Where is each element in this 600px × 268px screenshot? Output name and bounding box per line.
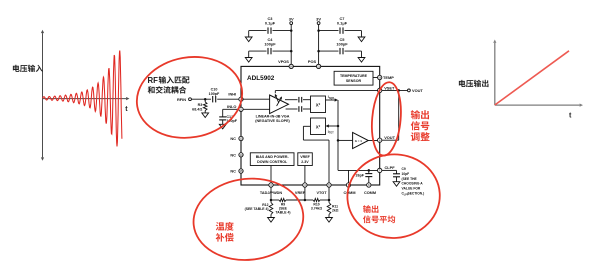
svg-text:SQR: SQR (329, 98, 334, 100)
svg-text:NC: NC (230, 136, 236, 141)
node C5 tap (317, 50, 320, 53)
wire VTGT down (328, 187, 331, 201)
capacitor C10 100pF (209, 88, 239, 103)
wire feedback VOUT to VSET (382, 90, 399, 140)
VGA gain control arrows (275, 91, 282, 106)
svg-text:NC: NC (230, 169, 236, 174)
svg-text:RFIN: RFIN (177, 97, 186, 102)
pin NC1 (230, 136, 243, 141)
pin INHI (228, 91, 243, 101)
svg-text:10pF: 10pF (402, 172, 410, 176)
pin POS (308, 59, 321, 68)
annotation text RF输入匹配和交流耦合 (148, 76, 190, 94)
terminal VOUT (408, 88, 424, 93)
capacitor C12 100pF (219, 109, 238, 124)
pin NC3 (230, 169, 243, 174)
svg-text:68.4Ω: 68.4Ω (192, 107, 202, 111)
annotation text 输出信号调整 (411, 110, 430, 141)
capacitor 26pF internal (356, 169, 373, 183)
op-amp U1 VGA triangle (270, 95, 289, 114)
pin CLPF (378, 165, 396, 173)
svg-text:TEMPERATURE: TEMPERATURE (340, 74, 368, 78)
svg-text:RF: RF (148, 76, 159, 85)
svg-text:COMM: COMM (364, 191, 376, 195)
svg-text:G = 1: G = 1 (355, 139, 363, 143)
label ADL5902 (247, 75, 275, 82)
wire INLO to VGA (243, 108, 269, 110)
output voltage graph vertical axis (493, 40, 496, 106)
node R3 tap (204, 98, 207, 101)
resistor R10 3.74k (305, 198, 329, 210)
label LINEAR-IN-dB VGA (255, 115, 290, 123)
output ramp line (495, 51, 569, 105)
current ITGT arrow (326, 124, 340, 134)
svg-text:POS: POS (308, 59, 317, 64)
current ISQR arrow (326, 95, 339, 102)
ground (C4) (245, 51, 252, 62)
summing node line (337, 100, 339, 170)
svg-text:100pF: 100pF (209, 92, 220, 96)
svg-text:TEMP: TEMP (383, 75, 394, 80)
capacitor C3 0.1uF (249, 16, 292, 34)
svg-text:INHI: INHI (228, 91, 236, 96)
wire VREF down (304, 187, 307, 201)
annotation text 输出信号平均 (363, 205, 395, 223)
node C3 tap (290, 29, 293, 32)
label t (input axis) (125, 106, 128, 113)
svg-text:VSET: VSET (384, 86, 395, 91)
wire internal CLPF (338, 169, 377, 171)
svg-text:VTGT: VTGT (316, 191, 327, 195)
annotation ellipse output adjust (369, 81, 404, 157)
node buffer tap (337, 139, 340, 142)
svg-text:SECTION.): SECTION.) (408, 192, 425, 196)
pin INLO (227, 104, 243, 111)
pin TADJ/PWDN (260, 183, 283, 195)
annotation ellipse RF input (130, 49, 248, 146)
wire to buffer (338, 139, 353, 141)
VGA output coupling caps (285, 97, 311, 112)
ground (R3) (202, 111, 209, 118)
node C4 tap (290, 50, 293, 53)
svg-text:CLPF: CLPF (385, 165, 396, 170)
svg-text:INLO: INLO (227, 104, 236, 109)
svg-text:VREF: VREF (295, 191, 306, 195)
resistor R9 (271, 198, 305, 214)
capacitor C4 100pF (249, 37, 292, 54)
svg-text:t: t (125, 106, 128, 113)
pin COMM (clpf) (364, 183, 376, 195)
wire VTGT to squarer (303, 126, 329, 182)
ground (C12) (219, 124, 226, 129)
annotation ellipse output averaging (345, 151, 443, 241)
ground (C5) (358, 51, 365, 62)
input RF burst waveform (43, 51, 122, 147)
wire INLO (223, 108, 239, 110)
svg-text:VOUT: VOUT (412, 88, 423, 93)
svg-text:VALUE FOR: VALUE FOR (402, 187, 421, 191)
svg-text:(SEE THE: (SEE THE (402, 177, 418, 181)
pin VOUT (378, 135, 396, 142)
input voltage graph vertical axis (41, 30, 44, 161)
svg-text:BIAS AND POWER-: BIAS AND POWER- (256, 155, 290, 159)
wire RFIN to C10 (191, 98, 211, 100)
ground (R11) (326, 218, 333, 223)
resistor R11 2k (327, 200, 339, 218)
svg-text:3V: 3V (316, 17, 321, 22)
svg-text:3V: 3V (289, 17, 294, 22)
svg-text:(SEE TABLE 4): (SEE TABLE 4) (245, 207, 269, 211)
svg-text:26pF: 26pF (356, 174, 365, 178)
svg-text:0.1μF: 0.1μF (265, 20, 276, 25)
wire INHI to VGA (243, 98, 269, 100)
pin VSET (378, 86, 395, 93)
squarer X2 (target) (311, 118, 326, 135)
wire VSET to VOUT terminal (382, 89, 407, 91)
op-chip ADL5902 body (241, 66, 380, 185)
wire 3V to VPOS (290, 25, 292, 64)
capacitor C9 (393, 174, 400, 182)
wire sensor to TEMP pin (373, 77, 377, 79)
ground (C3) (245, 31, 252, 42)
svg-text:NC: NC (230, 152, 236, 157)
pin VREF (295, 183, 307, 195)
svg-text:3.74kΩ: 3.74kΩ (311, 207, 322, 211)
svg-text:100pF: 100pF (264, 42, 276, 47)
resistor R12 (245, 200, 273, 218)
ground (C7) (358, 31, 365, 42)
node C7 tap (317, 29, 320, 32)
block VREF 2.3V (298, 153, 313, 166)
output voltage graph horizontal axis (495, 104, 583, 107)
svg-text:ADL5902: ADL5902 (247, 75, 275, 82)
svg-text:2.3V: 2.3V (301, 160, 309, 164)
node feedback junction (397, 89, 400, 92)
svg-text:VREF: VREF (300, 155, 310, 159)
squarer X2 (signal) (311, 96, 326, 113)
wire TADJ down (270, 187, 273, 201)
capacitor C5 100pF (319, 37, 362, 54)
label 电压输入 (13, 65, 43, 72)
pin TEMP (378, 75, 395, 80)
svg-text:SENSOR: SENSOR (346, 79, 362, 83)
svg-text:CHOOSING A: CHOOSING A (402, 182, 424, 186)
annotation text 温度补偿 (216, 222, 234, 242)
resistor R3 68.4ohm (192, 99, 207, 111)
svg-text:TABLE 4): TABLE 4) (275, 211, 290, 215)
pin VTGT (316, 183, 331, 195)
pin COMM (buffer) (343, 183, 355, 195)
svg-text:2kΩ: 2kΩ (332, 209, 339, 213)
terminal RFIN (177, 97, 191, 102)
op-amp buffer G=1 (353, 132, 369, 148)
block BIAS AND POWER-DOWN CONTROL (250, 153, 294, 166)
label 电压输出 (459, 80, 489, 87)
svg-text:VOUT: VOUT (384, 135, 395, 140)
wire CLPF external (382, 170, 397, 173)
supply terminal 3V (right) (316, 17, 321, 25)
svg-text:X²: X² (316, 125, 321, 130)
pin NC2 (230, 152, 243, 157)
block TEMPERATURE SENSOR (334, 71, 373, 85)
wire 3V to POS (318, 25, 320, 64)
svg-text:100pF: 100pF (336, 42, 348, 47)
wire bias to TADJ pin (270, 166, 272, 183)
svg-text:0.1μF: 0.1μF (337, 20, 348, 25)
svg-text:TGT: TGT (329, 133, 334, 135)
svg-text:t: t (569, 111, 572, 120)
wire buffer to VOUT pin (368, 140, 377, 142)
supply terminal 3V (left) (289, 17, 294, 25)
wire VSET gain control (275, 90, 377, 92)
label t (output axis) (569, 111, 572, 120)
label C9 note (402, 167, 425, 196)
annotation ellipse temperature compensation (189, 173, 307, 265)
svg-text:C9: C9 (402, 167, 406, 171)
svg-text:COMM: COMM (343, 191, 355, 195)
ground (R12) (268, 218, 275, 223)
svg-text:(NEGATIVE SLOPE): (NEGATIVE SLOPE) (255, 119, 290, 123)
capacitor C7 0.1uF (319, 16, 362, 34)
wire COMM stub (348, 170, 350, 182)
pin VPOS (278, 59, 293, 68)
svg-text:DOWN CONTROL: DOWN CONTROL (257, 160, 288, 164)
svg-text:VPOS: VPOS (278, 59, 289, 64)
ground (C9) (393, 182, 400, 187)
svg-text:X²: X² (316, 103, 321, 108)
input voltage graph horizontal axis (43, 97, 130, 100)
wire vref block to VREF pin (304, 166, 306, 183)
